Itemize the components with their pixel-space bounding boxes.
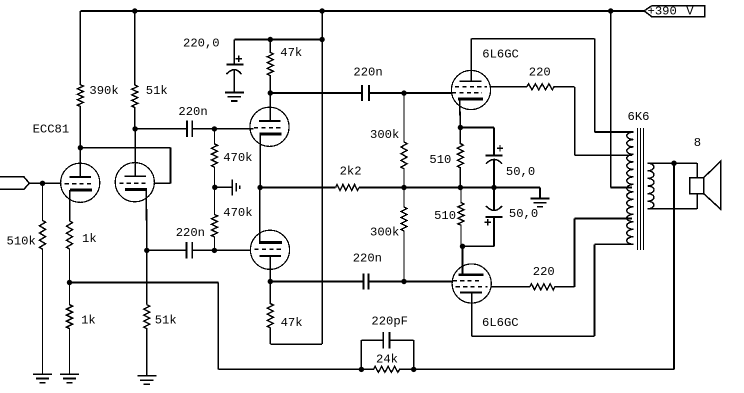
svg-text:8: 8 [694,136,701,150]
node 470k/220n/grid lower [212,248,217,253]
wire lower screen rise to UL tap [574,219,576,287]
wire transformer bottom rise [594,244,596,336]
wire upper cathode lead [459,99,462,127]
label 220n upper-right [353,66,382,80]
svg-text:470k: 470k [223,151,252,165]
input tag [0,177,29,189]
capacitor 50,0 (lower, electrolytic) [485,188,503,226]
svg-text:1k: 1k [82,232,97,246]
wire secondary bottom [648,208,698,210]
transformer 6K6 primary winding [627,132,634,244]
wire B+ to center tap [611,11,632,188]
resistor 390k (plate R, triode 1) [77,11,83,148]
node 300k center [401,185,406,190]
wire rail to ground [404,187,540,189]
wire into primary top [595,131,634,133]
wire speaker stub top [696,163,698,177]
label 51k lower [155,314,177,328]
capacitor 220pF [383,332,389,348]
wire feedback drop [673,163,675,369]
label 47k upper [280,46,302,60]
label 220n lower-right [353,252,382,266]
resistor 1k (lower, to ground) [67,283,73,374]
wire transformer top drop [594,39,596,132]
capacitor 50,0 (upper, electrolytic) [486,145,504,187]
node 24k right [411,367,416,372]
resistor 1k (cathode, upper) [67,221,73,283]
ground 510k [33,374,52,382]
node upper cathode [458,125,463,130]
node 24k left [359,367,364,372]
wire cathode lead upper splitter [259,134,261,187]
wire UL tap lower [575,218,633,220]
ground 51k [137,376,156,384]
resistor 470k (lower) [212,187,218,250]
resistor 24k (feedback) [361,366,413,372]
svg-text:+390: +390 [648,5,677,19]
node rail/510 upper [458,185,463,190]
label 6L6GC upper [482,48,519,62]
wire upper plate to transformer [471,38,594,40]
svg-text:300k: 300k [370,226,399,240]
wire feedback rise [217,283,219,370]
wire splitter plate to cap [270,92,362,94]
svg-text:220n: 220n [353,66,382,80]
transformer core [638,128,644,250]
label 6L6GC lower [482,316,519,330]
capacitor 220pF loop [361,340,413,369]
svg-text:47k: 47k [280,46,302,60]
label 470k upper [223,151,252,165]
wire feedback bottom left [218,368,361,370]
label ECC81 [33,122,70,136]
resistor 510k (grid leak) [40,183,46,373]
label 50,0 upper [506,165,535,179]
label 1k upper [82,232,97,246]
svg-text:220: 220 [533,265,555,279]
wire to side ground [215,186,232,188]
power flag +390 V [644,5,704,19]
resistor 220 (upper screen) [527,84,575,90]
wire 2k2 to 300k node [359,187,404,189]
resistor 47k (lower splitter plate R) [267,282,273,345]
svg-text:47k: 47k [281,316,303,330]
tube ECC81 triode 2 [115,163,154,202]
svg-text:390k: 390k [89,84,118,98]
capacitor 220n (to lower 6L6) [364,273,369,289]
resistor 2k2 (tail) [336,185,359,191]
wire lower cathode node to cap [463,245,495,247]
label 220n #1 [178,105,207,119]
capacitor 50,0 upper lead [493,128,495,155]
wire cathode2 node to 51k [146,250,148,304]
label 6K6 [628,110,650,124]
label 24k [376,353,398,367]
wire cap #2 to grid node [192,249,214,251]
node bus/splitter-supply junction [319,8,324,13]
wire feedback to cathode divider [70,282,219,284]
svg-text:1k: 1k [81,314,96,328]
svg-text:6K6: 6K6 [628,110,650,124]
node cathode/feedback junction [67,280,72,285]
node rail/50,0 upper [491,185,496,190]
wire cathode lead lower splitter [259,188,261,244]
resistor 510 (lower cathode) [458,188,464,247]
wire speaker stub bottom [696,194,698,209]
tube splitter triode upper [250,107,289,146]
svg-text:50,0: 50,0 [509,207,538,221]
label 510k [7,235,36,249]
ground 1k [60,374,79,382]
speaker 8 ohm [690,161,721,209]
svg-text:470k: 470k [223,206,252,220]
wire plate lead upper splitter [269,93,271,121]
wire triode1 plate to dot [79,148,81,177]
node triode1 plate / coupling [78,145,83,150]
resistor 51k (plate R, triode 2) [132,11,138,129]
capacitor 220,0 (electrolytic) [226,56,243,92]
resistor 47k (upper splitter plate R) [267,40,273,94]
node secondary top / feedback [671,161,676,166]
capacitor 220n (to upper 6L6) [362,85,369,101]
label 51k [146,84,168,98]
wire cap to grid node upper [369,92,404,94]
node input/510k/grid1 [40,181,45,186]
label 220 upper [529,66,551,80]
wire plate lead lower splitter [269,255,271,281]
svg-text:6L6GC: 6L6GC [482,48,519,62]
label 50,0 lower [509,207,538,221]
node bus/output-transformer CT junction [608,8,613,13]
svg-text:510k: 510k [7,235,36,249]
ground (sideways) 470k divider [232,179,240,195]
wire plate lead triode2 [134,129,136,176]
wire input to grid node [29,182,60,184]
tube 6L6GC lower [452,264,491,303]
capacitor 220,0 lead [233,40,235,64]
svg-text:220: 220 [529,66,551,80]
wire plate1 to grid2 vertical [170,148,172,184]
label 220,0 [183,37,220,51]
wire secondary top [648,162,698,164]
wire into upper 6L6 grid [404,92,452,94]
label 300k upper [370,128,399,142]
wire lower plate to transformer [472,335,595,337]
svg-text:220pF: 220pF [371,315,408,329]
ground cathode rail [531,198,550,206]
wire feedback bottom right [414,368,674,370]
svg-text:51k: 51k [146,84,168,98]
svg-text:220,0: 220,0 [183,37,220,51]
label 510 lower [434,209,456,223]
wire cathode node to cap [460,127,494,129]
wire grid node into lower triode [214,249,251,251]
node splitter lower plate [268,279,273,284]
node 47k top [268,37,273,42]
label 220pF [371,315,408,329]
svg-text:50,0: 50,0 [506,165,535,179]
tube 6L6GC upper [451,70,490,109]
wire cathode triode2 down [145,189,148,250]
svg-text:510: 510 [434,209,456,223]
node 220n/300k/grid lower 6L6 [401,279,406,284]
wire splitter B+ drop [321,11,323,344]
label 1k lower [81,314,96,328]
label 47k lower [281,316,303,330]
svg-text:510: 510 [429,153,451,167]
svg-text:V: V [686,5,694,19]
wire supply rail y=39 [234,39,322,41]
wire lower screen out [491,286,530,288]
wire screen drop to UL tap [574,87,576,155]
wire cap to grid node lower [369,281,404,283]
tube ECC81 triode 1 [61,163,100,202]
node 220n/300k/grid upper 6L6 [401,90,406,95]
wire into grid of triode 2 [154,182,170,184]
wire +390V top bus [80,10,644,12]
resistor 300k (upper) [401,93,407,187]
svg-text:ECC81: ECC81 [33,122,70,136]
svg-text:6L6GC: 6L6GC [482,316,519,330]
label 510 upper [429,153,451,167]
transformer 6K6 secondary winding [648,163,654,209]
node 470k junction [212,185,217,190]
label 220 lower [533,265,555,279]
capacitor 220n (coupling #2) [187,242,193,258]
node splitter upper plate [268,90,273,95]
wire ground stem [539,188,541,198]
wire lower plate lead [471,293,473,336]
wire cathode triode1 down [69,190,71,221]
node 220n/470k/grid [212,126,217,131]
label 2k2 [340,165,362,179]
node cathode rail [257,185,262,190]
wire cathode2-tap to cap #2 [147,249,187,251]
svg-text:24k: 24k [376,353,398,367]
wire grid node into triode [214,128,253,130]
ground 220,0 [225,93,244,101]
resistor 51k (cathode triode 2) [144,305,150,376]
wire cathode rail to 2k2 [260,187,336,189]
wire splitter lower plate to cap [270,281,363,283]
wire plate1 to grid2 horizontal [80,147,170,149]
svg-text:2k2: 2k2 [340,165,362,179]
wire upper plate lead [470,39,472,81]
resistor 300k (lower) [401,188,407,282]
svg-text:220n: 220n [176,226,205,240]
wire UL tap upper [575,154,632,156]
label 220n #2 [176,226,205,240]
node 51k/220n coupling [132,126,137,131]
svg-text:220n: 220n [353,252,382,266]
capacitor 50,0 lower lead [493,218,495,247]
wire 51k-node to cap [135,128,187,130]
label 470k lower [223,206,252,220]
label 300k lower [370,226,399,240]
capacitor 220n (coupling #1) [187,121,192,137]
node supply tee [319,37,324,42]
wire cap to grid node [192,128,214,130]
tube splitter triode lower [250,230,289,269]
resistor 470k (upper) [212,129,218,187]
wire upper screen out [491,86,527,88]
node bus/51k junction [132,8,137,13]
resistor 220 (lower screen) [530,284,575,290]
label 8 [694,136,701,150]
wire into lower 6L6 grid [404,281,453,283]
svg-text:220n: 220n [178,105,207,119]
node cathode2 / 220n feedback tap [144,248,149,253]
wire into primary bottom [595,243,634,245]
wire lower cathode lead [462,246,464,274]
wire 47k lower to B+ drop [270,343,322,345]
svg-text:300k: 300k [370,128,399,142]
label 390k [89,84,118,98]
node lower cathode [460,244,465,249]
resistor 510 (upper cathode) [457,128,463,188]
svg-text:51k: 51k [155,314,177,328]
